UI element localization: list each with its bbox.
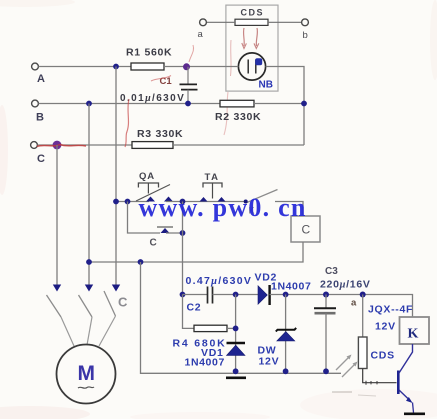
wire line A xyxy=(39,66,132,68)
red annotation arrow 2 xyxy=(256,28,257,46)
capacitor C1 plates xyxy=(180,83,198,85)
node R2 right xyxy=(301,101,307,107)
NB electrode left xyxy=(247,60,249,74)
wire phase B drop xyxy=(88,104,90,290)
wire terminal a to CDS xyxy=(207,21,236,23)
svg-text:C: C xyxy=(302,223,311,237)
diode VD1 triangle xyxy=(227,345,246,355)
svg-text:0.01μ/630V: 0.01μ/630V xyxy=(120,93,185,104)
light arrow 1 xyxy=(336,356,350,370)
node A-drop xyxy=(113,64,119,70)
node return B xyxy=(86,259,92,265)
svg-text:12V: 12V xyxy=(375,321,396,333)
node a (CDS tap) xyxy=(360,292,366,298)
resistor R2 xyxy=(220,100,254,107)
contact 1 wire to motor xyxy=(61,317,74,346)
svg-text:R3 330K: R3 330K xyxy=(137,128,183,140)
red scribble B-to-C vertical xyxy=(125,99,129,147)
base line ticks xyxy=(365,381,367,385)
contact 2 triangle xyxy=(85,285,93,292)
relay contact K dot xyxy=(244,200,248,204)
transistor base bar xyxy=(397,371,400,395)
capacitor C3 lower wire xyxy=(325,313,327,373)
svg-text:CDS: CDS xyxy=(241,8,265,18)
wire R1 to NB xyxy=(164,66,238,68)
zener DW bar xyxy=(276,328,296,332)
ground bar (emitter) xyxy=(404,412,425,415)
wire to C2 xyxy=(183,294,208,296)
node DW bottom xyxy=(283,368,289,374)
node self-hold top xyxy=(180,199,186,205)
wire R4 to VD1 node xyxy=(227,327,236,329)
wire phase A drop xyxy=(115,67,117,290)
svg-text:www. pw0. cn: www. pw0. cn xyxy=(139,193,307,222)
svg-text:R2 330K: R2 330K xyxy=(215,111,261,123)
pushbutton QA blade xyxy=(136,185,170,202)
pink smudge bottom-left xyxy=(0,406,90,419)
resistor R3 xyxy=(132,142,173,149)
svg-text:CDS: CDS xyxy=(371,350,395,362)
pink smudge bottom-center xyxy=(130,412,270,419)
pushbutton QA bracket xyxy=(138,183,158,188)
svg-text:b: b xyxy=(303,30,308,41)
svg-text:C2: C2 xyxy=(187,302,202,314)
svg-text:A: A xyxy=(37,73,45,85)
pink smudge bottom-right xyxy=(300,389,437,419)
svg-text:C: C xyxy=(150,238,157,249)
node C1 bottom xyxy=(185,101,191,107)
contact 3 triangle xyxy=(112,285,120,292)
node VD1 top xyxy=(233,326,239,332)
node C2 input xyxy=(180,292,186,298)
contact 1 blade xyxy=(47,295,62,317)
svg-text:0.47μ/630V: 0.47μ/630V xyxy=(186,275,253,287)
pink smudge top-left xyxy=(0,0,75,7)
diode VD1 bar xyxy=(227,342,246,344)
node QA branch xyxy=(125,199,131,205)
diode VD2 triangle xyxy=(258,286,267,305)
node C3 bottom xyxy=(323,368,329,374)
pink smudge left-edge xyxy=(0,105,8,195)
self-hold contact bar xyxy=(157,226,173,228)
wire C2 to VD2 xyxy=(213,294,259,296)
svg-text:NB: NB xyxy=(259,80,273,91)
node DW top xyxy=(283,292,289,298)
svg-text:C3: C3 xyxy=(325,266,338,277)
NB electrode right xyxy=(255,60,257,74)
svg-text:C: C xyxy=(37,153,45,165)
wire K to coil corner xyxy=(275,202,303,217)
resistor R4 xyxy=(194,325,227,331)
terminal B xyxy=(32,100,39,107)
photoresistor CDS (lower) body xyxy=(358,337,367,369)
svg-text:1N4007: 1N4007 xyxy=(185,357,225,369)
pink smudge right-top-edge xyxy=(430,0,437,80)
diode VD2 bar xyxy=(268,285,270,305)
red tick near C1 xyxy=(151,76,171,82)
node self-hold corner xyxy=(180,230,186,236)
light arrow 2 xyxy=(342,363,356,377)
terminal A xyxy=(32,63,39,70)
contact 3 wire to motor xyxy=(99,316,116,346)
self-hold contact C triangle xyxy=(161,228,170,233)
node B-drop xyxy=(86,101,92,107)
svg-text:R1 560K: R1 560K xyxy=(126,47,172,59)
capacitor C2 plates xyxy=(207,287,209,304)
svg-text:B: B xyxy=(36,112,44,124)
contact 2 wire to motor xyxy=(87,317,92,345)
wire QA to TA to K xyxy=(166,201,246,203)
contact 3 blade xyxy=(104,291,116,316)
thermal contact TA stem xyxy=(212,183,214,199)
red scribble on line C xyxy=(37,145,86,147)
contactor coil C box xyxy=(291,216,320,242)
red annotation stroke below box xyxy=(224,92,228,135)
wire line C xyxy=(38,144,133,146)
motor M circle xyxy=(57,345,116,404)
svg-text:JQX--4F: JQX--4F xyxy=(368,304,413,316)
wire CDS to base line xyxy=(363,369,397,383)
capacitor C3 column xyxy=(325,295,327,309)
neon bulb NB xyxy=(238,53,265,80)
wire NB to right rail xyxy=(266,67,304,146)
wire control line left xyxy=(116,201,149,203)
contact 1 triangle xyxy=(53,285,61,292)
wire line B xyxy=(39,103,221,105)
svg-text:12V: 12V xyxy=(259,356,280,368)
contact 2 blade xyxy=(79,295,93,317)
wire R2 right xyxy=(254,103,304,105)
capacitor C3 bottom plate xyxy=(315,312,336,315)
TA contact left xyxy=(200,197,208,202)
sensor enclosure box xyxy=(226,5,278,91)
svg-text:220μ/16V: 220μ/16V xyxy=(320,279,371,291)
svg-text:TA: TA xyxy=(205,172,220,183)
relay contact K blade xyxy=(246,190,278,204)
pushbutton QA stem xyxy=(147,183,149,194)
wire CDS to terminal b xyxy=(268,21,302,23)
node VD1 bottom xyxy=(233,368,239,374)
zener DW column xyxy=(285,295,287,374)
node control tap xyxy=(113,199,119,205)
transistor collector xyxy=(399,344,413,373)
svg-text:C: C xyxy=(118,295,128,310)
red annotation stroke left inside box xyxy=(230,40,233,76)
QA contact right xyxy=(164,197,173,202)
TA contact right xyxy=(218,197,226,202)
node return supply xyxy=(138,259,144,265)
ground bar under VD1 xyxy=(226,376,246,379)
noise marks bottom right xyxy=(332,391,352,393)
self-hold branch down xyxy=(128,202,161,234)
red annotation arrow 1 (light toward NB) xyxy=(243,28,246,46)
wire return drop xyxy=(141,262,342,373)
emitter arrowhead xyxy=(406,397,413,403)
svg-text:M: M xyxy=(78,362,96,385)
resistor R1 xyxy=(131,63,164,70)
wire phase C drop xyxy=(56,145,58,289)
svg-text:a: a xyxy=(351,298,357,309)
capacitor C1 wire top xyxy=(187,67,189,84)
wire coil bottom to return xyxy=(89,242,304,262)
svg-text:1N4007: 1N4007 xyxy=(271,281,311,293)
wire a-node to CDS xyxy=(362,295,364,338)
node C3 top xyxy=(323,292,329,298)
resistor R4 branch wire xyxy=(183,295,195,329)
wire VD1 column xyxy=(235,295,237,374)
svg-text:QA: QA xyxy=(139,171,155,182)
svg-text:a: a xyxy=(198,29,204,40)
capacitor C1 wire bottom xyxy=(187,90,189,104)
node R1-C1 (purple) xyxy=(183,63,190,70)
photoresistor CDS body xyxy=(235,19,268,25)
QA contact left xyxy=(146,197,155,202)
transistor emitter xyxy=(399,390,411,401)
wire R3 right xyxy=(173,144,304,146)
red tick near purple node xyxy=(189,45,194,62)
emitter down wire xyxy=(413,403,414,413)
zener DW triangle xyxy=(277,332,295,342)
motor tilde xyxy=(78,387,94,388)
wire self-hold right xyxy=(166,232,183,234)
wire feed drop to C2 xyxy=(182,202,184,295)
node C-drop (purple blob) xyxy=(53,141,62,150)
relay K box xyxy=(400,317,430,344)
capacitor C3 top plate xyxy=(314,307,336,309)
terminal a xyxy=(200,19,207,26)
wire VD2 to relay corner xyxy=(270,295,413,318)
svg-text:K: K xyxy=(408,327,419,342)
node R4/VD1 top xyxy=(233,292,239,298)
NB blue mark xyxy=(255,58,262,65)
terminal C xyxy=(31,142,38,149)
thermal contact TA bracket xyxy=(203,183,222,188)
terminal b xyxy=(302,19,309,26)
